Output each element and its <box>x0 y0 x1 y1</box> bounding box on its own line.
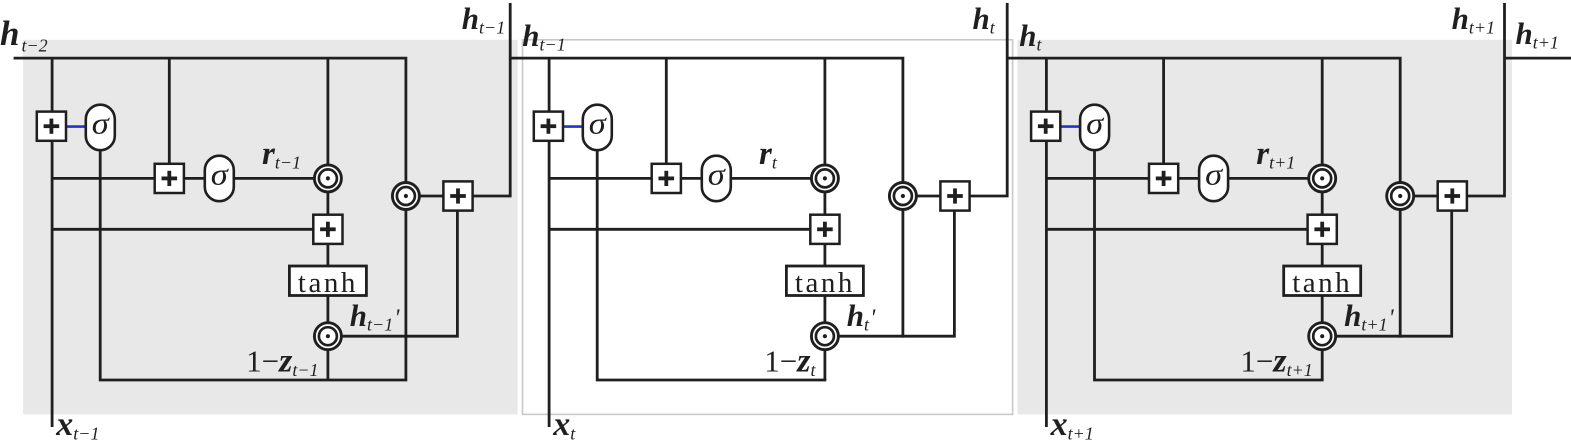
svg-text:tanh: tanh <box>795 267 855 299</box>
cell 1 wire: row to add box 3 <box>52 228 328 231</box>
cell 2 tanh box <box>786 266 863 299</box>
svg-text:1−zt: 1−zt <box>764 343 816 381</box>
svg-text:σ: σ <box>92 106 111 141</box>
cell 3 sigma unit 2 <box>1199 156 1228 202</box>
cell 2 add box 2 <box>652 164 681 193</box>
cell 2 sigma unit 2 <box>702 156 731 202</box>
cell 3 wire: vertical to add box 2 <box>1162 58 1165 164</box>
cell 2 wire: blue link add box 1 to sigma 1 <box>564 125 582 128</box>
cell 3 wire: 1-z bottom line from sigma 1 to tanh chain <box>1095 150 1324 380</box>
cell 1 multiply node r (odot) <box>314 165 341 192</box>
cell 1 wire: candidate chain vertical <box>326 58 329 380</box>
svg-text:ht−1: ht−1 <box>462 1 505 38</box>
cell 2 multiply node r (odot) <box>811 165 838 192</box>
svg-text:σ: σ <box>589 106 608 141</box>
cell 2 wire: h input line / right vertical down to h-prime line <box>510 58 903 338</box>
svg-text:σ: σ <box>1086 106 1105 141</box>
cell 2 sigma unit 1 <box>583 105 612 151</box>
cell 3 multiply node r (odot) <box>1309 165 1336 192</box>
cell 2 wire: h-prime line up to add box 4 <box>825 212 955 337</box>
cell 3 add box 3 <box>1308 215 1337 244</box>
svg-text:ht+1: ht+1 <box>1452 1 1495 38</box>
cell 1 add box 2 <box>155 164 184 193</box>
cell 3 add box 4 (output sum) <box>1438 181 1467 210</box>
cell 3 multiply node h-prime (odot) <box>1309 323 1336 350</box>
svg-text:ht: ht <box>1019 18 1042 55</box>
cell 2 multiply node 1-z (odot) <box>889 183 916 210</box>
svg-text:σ: σ <box>708 157 727 192</box>
cell 1 background panel <box>23 40 518 415</box>
cell 1 wire: vertical to add box 2 <box>168 58 171 164</box>
cell 1 wire: row to add box 2 and sigma <box>52 177 328 180</box>
svg-text:tanh: tanh <box>1292 267 1352 299</box>
cell 3 wire: blue link add box 1 to sigma 1 <box>1061 125 1079 128</box>
svg-text:tanh: tanh <box>298 267 358 299</box>
cell 2 background panel <box>523 40 1013 415</box>
cell 1 multiply node 1-z (odot) <box>392 183 419 210</box>
svg-text:ht+1: ht+1 <box>1516 16 1559 53</box>
cell 3 add box 2 <box>1149 164 1178 193</box>
svg-text:σ: σ <box>1205 157 1224 192</box>
svg-text:ht−2: ht−2 <box>0 14 48 56</box>
cell 3 wire: h input line / right vertical down to h-prime line <box>1007 58 1400 338</box>
cell 3 wire: candidate chain vertical <box>1321 58 1324 380</box>
cell 2 add box 3 <box>810 215 839 244</box>
cell 2 wire: x input vertical <box>548 58 551 427</box>
cell 3 wire: row to add box 3 <box>1046 228 1322 231</box>
cell 3 wire: output row and h output vertical <box>1400 3 1504 196</box>
wire: h output line to right edge <box>1505 57 1571 60</box>
cell 2 wire: row to add box 2 and sigma <box>549 177 825 180</box>
svg-text:ht: ht <box>973 1 996 38</box>
svg-text:ht−1: ht−1 <box>522 18 565 55</box>
cell 1 tanh box <box>289 266 366 299</box>
cell 1 wire: output row and h output vertical <box>406 3 510 196</box>
cell 3 wire: h-prime line up to add box 4 <box>1322 212 1452 337</box>
cell 2 add box 4 (output sum) <box>940 181 969 210</box>
cell 2 wire: 1-z bottom line from sigma 1 to tanh chain <box>597 150 826 380</box>
cell 1 multiply node h-prime (odot) <box>314 323 341 350</box>
cell 1 add box 1 <box>37 112 66 141</box>
cell 2 wire: vertical to add box 2 <box>665 58 668 164</box>
cell 2 wire: candidate chain vertical <box>824 58 827 380</box>
cell 2 wire: output row and h output vertical <box>903 3 1007 196</box>
cell 1 sigma unit 2 <box>205 156 234 202</box>
cell 1 wire: x input vertical <box>51 58 54 427</box>
cell 3 tanh box <box>1284 266 1361 299</box>
cell 2 wire: row to add box 3 <box>549 228 825 231</box>
cell 1 wire: blue link add box 1 to sigma 1 <box>67 125 85 128</box>
cell 3 add box 1 <box>1031 112 1060 141</box>
svg-text:σ: σ <box>211 157 230 192</box>
cell 1 wire: h input line / right vertical / 1-z bottom line <box>14 58 406 380</box>
cell 1 wire: h-prime line up to add box 4 <box>328 212 458 337</box>
cell 3 background panel <box>1017 40 1512 415</box>
cell 1 sigma unit 1 <box>86 105 115 151</box>
cell 2 multiply node h-prime (odot) <box>811 323 838 350</box>
cell 1 add box 4 (output sum) <box>443 181 472 210</box>
cell 3 wire: x input vertical <box>1045 58 1048 427</box>
cell 3 multiply node 1-z (odot) <box>1387 183 1414 210</box>
cell 3 wire: row to add box 2 and sigma <box>1046 177 1322 180</box>
cell 3 sigma unit 1 <box>1080 105 1109 151</box>
cell 1 add box 3 <box>313 215 342 244</box>
cell 2 add box 1 <box>534 112 563 141</box>
